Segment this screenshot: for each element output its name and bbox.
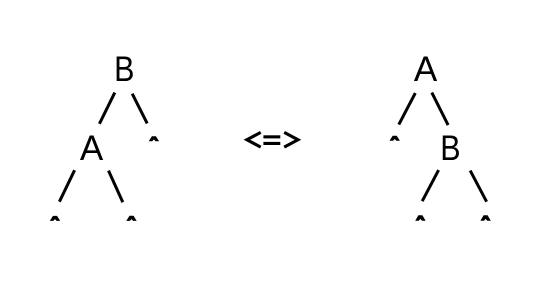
equivalence symbol <=> : left angle bracket (247, 132, 261, 147)
svg-text:A: A (80, 129, 104, 168)
wire: right tree edge B to left leaf (422, 170, 438, 201)
leaf caret: bottom-right of left tree (126, 216, 136, 221)
svg-text:B: B (440, 128, 460, 167)
leaf caret: bottom-right of right tree (480, 215, 490, 220)
wire: right tree edge A to B (432, 93, 448, 126)
leaf caret: bottom-left of right tree (415, 215, 425, 220)
equivalence symbol <=> : equals bottom bar (263, 142, 280, 145)
leaf caret: bottom-left of left tree (50, 216, 60, 221)
wire: right tree edge A to left leaf (399, 93, 416, 125)
leaf caret: right child of B (left tree) (149, 136, 159, 141)
equivalence symbol <=> : equals top bar (263, 135, 280, 138)
svg-text:A: A (414, 50, 438, 89)
node B (left tree root) (114, 49, 134, 88)
wire: left tree edge A to right leaf (109, 171, 123, 203)
wire: left tree edge B to A (99, 93, 114, 124)
wire: right tree edge B to right leaf (470, 171, 486, 202)
node B (right tree) (440, 128, 460, 167)
wire: left tree edge A to left leaf (59, 170, 74, 202)
leaf caret: left child of A (right tree) (390, 136, 400, 141)
wire: left tree edge B to right subtree (132, 94, 147, 124)
svg-text:B: B (114, 49, 134, 88)
equivalence symbol <=> : right angle bracket (284, 132, 298, 147)
